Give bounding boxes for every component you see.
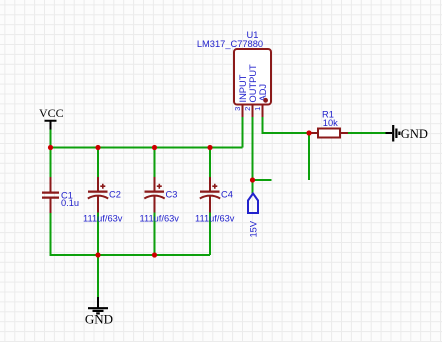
junction bottom rail at C3 — [152, 252, 157, 257]
ground symbol GND bottom — [85, 297, 113, 326]
wire C3 branch bottom — [154, 212, 156, 255]
svg-text:111uf/63v: 111uf/63v — [83, 214, 123, 224]
svg-text:3: 3 — [233, 107, 242, 111]
svg-text:1: 1 — [253, 107, 262, 111]
wire VCC stem — [50, 130, 52, 148]
svg-text:C3: C3 — [166, 190, 178, 200]
capacitor C3 — [144, 177, 164, 213]
U1 pin 2 stub — [252, 105, 254, 118]
wire OUTPUT drop — [252, 117, 254, 194]
wire C1 branch bottom — [50, 213, 52, 256]
svg-text:111uf/63v: 111uf/63v — [195, 214, 235, 224]
wire C1 branch top — [50, 147, 52, 178]
wire bottom rail — [51, 254, 211, 256]
ground symbol GND right — [386, 125, 428, 142]
wire ADJ to R1 — [263, 117, 310, 134]
svg-text:LM317_C77880: LM317_C77880 — [197, 39, 263, 49]
U1 pin 1 stub — [262, 105, 264, 118]
wire OUTPUT stub right — [253, 179, 272, 181]
resistor R1 — [309, 129, 348, 138]
op-amp regulator U1 — [234, 49, 271, 105]
wire C3 branch top — [154, 147, 156, 178]
wire R1 to GND — [348, 132, 386, 134]
U1 pin 3 stub — [242, 105, 244, 118]
svg-text:2: 2 — [243, 107, 252, 111]
VCC power symbol — [39, 106, 64, 130]
capacitor C1 — [42, 177, 59, 213]
net flag 15V — [248, 194, 258, 214]
svg-text:C2: C2 — [109, 190, 121, 200]
svg-text:INPUT: INPUT — [238, 74, 248, 102]
svg-text:0.1u: 0.1u — [61, 198, 79, 208]
junction bottom rail at C2 — [95, 252, 100, 257]
junction OUTPUT node — [250, 177, 255, 182]
wire top rail — [51, 147, 243, 149]
wire INPUT riser — [242, 117, 244, 148]
junction top rail at C3 — [152, 145, 157, 150]
wire C2 branch bottom — [97, 212, 99, 255]
svg-text:15V: 15V — [248, 220, 258, 237]
wire C4 branch bottom — [209, 212, 211, 255]
junction top rail at C4 — [207, 145, 212, 150]
svg-text:OUTPUT: OUTPUT — [248, 64, 258, 103]
junction top rail at C1 — [48, 145, 53, 150]
svg-text:10k: 10k — [323, 118, 338, 128]
svg-text:C4: C4 — [221, 190, 233, 200]
U1 ADJ pin dot — [263, 98, 268, 103]
wire C2 branch top — [97, 147, 99, 178]
junction top rail at C2 — [95, 145, 100, 150]
wire C4 branch top — [209, 147, 211, 178]
svg-text:GND: GND — [85, 311, 113, 326]
junction ADJ R1 node — [306, 130, 311, 135]
capacitor C2 — [88, 177, 108, 213]
svg-text:111uf/63v: 111uf/63v — [140, 214, 180, 224]
capacitor C4 — [200, 177, 220, 213]
wire GND stem — [97, 255, 99, 297]
svg-text:GND: GND — [401, 127, 428, 141]
svg-text:VCC: VCC — [39, 106, 64, 120]
wire R1 junction drop — [308, 133, 310, 180]
